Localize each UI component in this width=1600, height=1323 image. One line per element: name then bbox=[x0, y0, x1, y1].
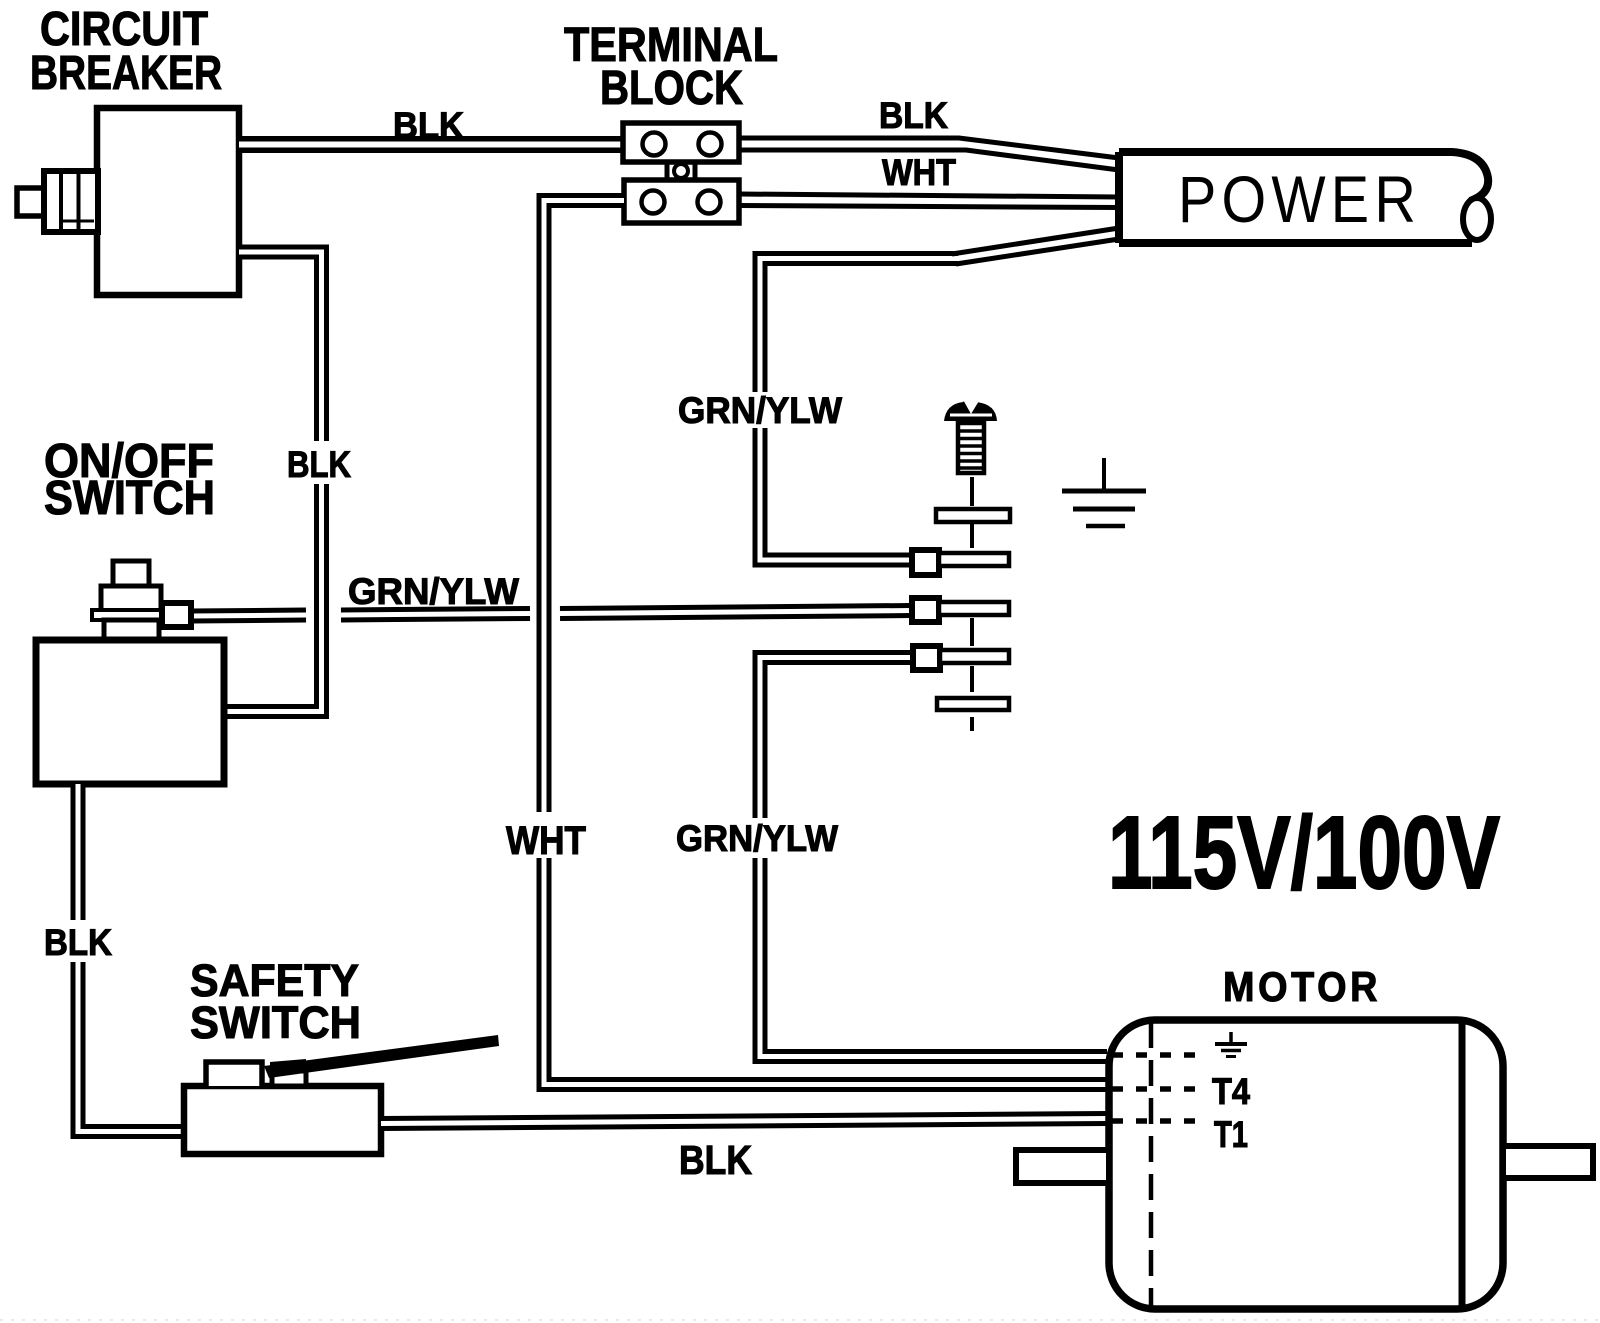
svg-text:BLOCK: BLOCK bbox=[600, 62, 743, 115]
on/off switch toggle mid bbox=[101, 586, 161, 611]
scan artifact line bottom bbox=[0, 1319, 1600, 1321]
terminal block middle tab bbox=[665, 160, 670, 182]
svg-text:GRN/YLW: GRN/YLW bbox=[678, 390, 842, 431]
wire WHT terminal block to power cable bbox=[739, 194, 1119, 197]
svg-text:BLK: BLK bbox=[44, 922, 112, 963]
on/off switch flange bbox=[92, 610, 163, 620]
svg-text:BREAKER: BREAKER bbox=[30, 47, 222, 100]
circuit breaker CB1 body bbox=[97, 108, 239, 295]
wire WHT vertical lower segment to motor bbox=[544, 858, 1107, 1085]
on/off switch toggle top bbox=[113, 561, 149, 586]
terminal block upper screws bbox=[643, 133, 666, 156]
terminal block upper half bbox=[623, 123, 739, 162]
terminal block lower screws bbox=[642, 191, 665, 214]
screw axis dashed line bbox=[970, 477, 974, 506]
wire BLK terminal block to power cable bbox=[739, 138, 1119, 158]
svg-text:BLK: BLK bbox=[393, 105, 464, 146]
wire GRN/YLW from power cable down bbox=[760, 259, 958, 393]
svg-text:BLK: BLK bbox=[879, 95, 948, 136]
svg-text:WHT: WHT bbox=[506, 819, 586, 863]
safety switch lever bbox=[264, 1035, 499, 1078]
svg-text:115V/100V: 115V/100V bbox=[1108, 795, 1500, 910]
washer upper bbox=[936, 509, 1010, 522]
screw for ground bbox=[944, 396, 997, 421]
svg-text:POWER: POWER bbox=[1178, 162, 1421, 236]
power cable cut end bbox=[1463, 198, 1491, 240]
svg-text:GRN/YLW: GRN/YLW bbox=[676, 818, 838, 859]
on/off switch body bbox=[36, 640, 224, 784]
safety switch body bbox=[184, 1086, 381, 1154]
motor right end cap line bbox=[1459, 1021, 1466, 1308]
svg-text:WHT: WHT bbox=[882, 152, 956, 193]
svg-text:SWITCH: SWITCH bbox=[190, 997, 361, 1048]
circuit breaker plug barrel bbox=[44, 171, 98, 232]
ring terminal 2 blade bbox=[939, 602, 1009, 615]
wire BLK breaker to terminal block bbox=[239, 136, 623, 153]
svg-text:MOTOR: MOTOR bbox=[1223, 963, 1381, 1010]
safety switch step bbox=[206, 1062, 262, 1086]
terminal block lower half bbox=[624, 180, 739, 223]
motor right shaft bbox=[1503, 1146, 1593, 1178]
wire GRN/YLW from on/off switch to ring terminal 2 bbox=[191, 615, 306, 616]
motor lead dashes (T4) bbox=[1112, 1086, 1206, 1092]
svg-text:T4: T4 bbox=[1212, 1071, 1250, 1112]
ring terminal 2 crimp bbox=[912, 598, 939, 622]
ring terminal 3 blade bbox=[940, 650, 1009, 663]
svg-text:SWITCH: SWITCH bbox=[44, 472, 215, 525]
ground symbol bbox=[1102, 458, 1106, 491]
svg-text:GRN/YLW: GRN/YLW bbox=[348, 571, 519, 612]
ring terminal 3 crimp bbox=[913, 646, 940, 670]
wire BLK on/off switch down to safety switch bbox=[71, 784, 86, 920]
wire BLK breaker down to on/off switch bbox=[239, 252, 322, 441]
ring terminal 1 crimp bbox=[912, 550, 939, 575]
svg-text:BLK: BLK bbox=[679, 1137, 752, 1183]
ring terminal 1 blade bbox=[939, 553, 1009, 566]
svg-text:BLK: BLK bbox=[287, 444, 351, 485]
motor lead dashes (T1) bbox=[1112, 1118, 1206, 1124]
wire GRN/YLW ring terminal 3 down to motor bbox=[760, 658, 913, 819]
power cable jacket bbox=[1119, 152, 1488, 201]
circuit breaker plug button bbox=[17, 188, 44, 216]
wire BLK vertical lower segment into switch bbox=[224, 484, 322, 712]
svg-text:T1: T1 bbox=[1214, 1114, 1248, 1155]
on/off switch connector bbox=[162, 603, 191, 627]
safety switch button bbox=[272, 1071, 306, 1086]
motor left foot bbox=[1016, 1150, 1109, 1183]
washer lower bbox=[937, 698, 1009, 710]
motor body bbox=[1109, 1020, 1503, 1309]
on/off switch neck bbox=[104, 620, 159, 641]
motor ground terminal symbol bbox=[1229, 1032, 1233, 1044]
motor lead dashes (ground) bbox=[1112, 1052, 1206, 1058]
motor left end cap line bbox=[1149, 1022, 1154, 1308]
wire GRN/YLW down to ring terminal 1 bbox=[760, 428, 912, 560]
wire BLK safety switch to motor bbox=[381, 1119, 1107, 1124]
wire WHT terminal block left down (vertical) bbox=[544, 201, 624, 813]
